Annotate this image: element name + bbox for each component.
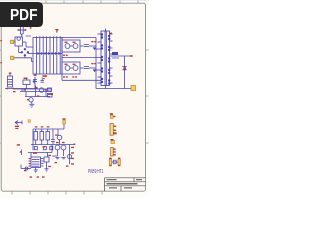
svg-text:PDF: PDF [10, 7, 38, 24]
